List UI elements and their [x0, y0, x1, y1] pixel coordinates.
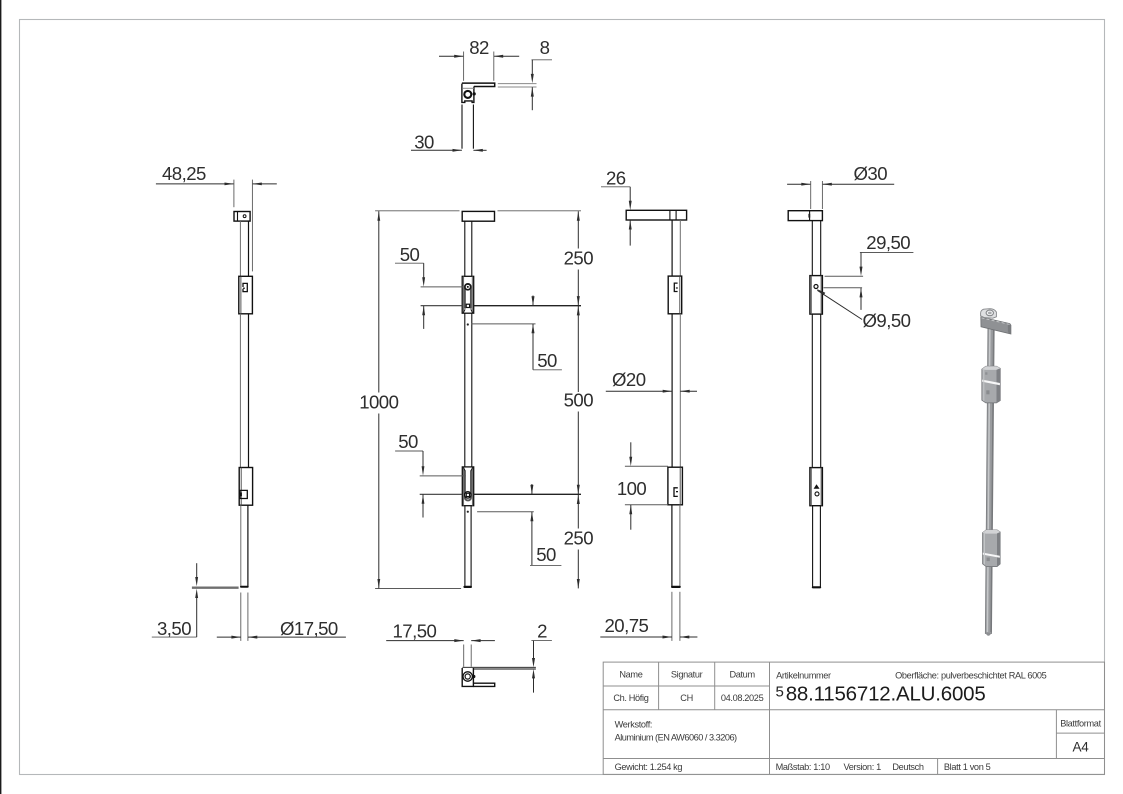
dimension 17,50 bottom — [386, 621, 495, 667]
upper bracket slot line long — [421, 305, 581, 307]
svg-text:Maßstab: 1:10: Maßstab: 1:10 — [776, 762, 830, 772]
right view rod upper — [672, 220, 680, 276]
svg-text:2: 2 — [537, 621, 547, 642]
right view upper bracket — [668, 276, 682, 314]
dimension 500 — [564, 306, 594, 494]
view4 rod lower — [813, 506, 821, 588]
sheet format cell — [1060, 718, 1101, 754]
top view handle bar — [462, 83, 495, 86]
view4 rod middle — [812, 314, 820, 468]
svg-text:Version: 1: Version: 1 — [844, 762, 882, 772]
svg-text:Name: Name — [619, 670, 642, 680]
dimension 26 — [601, 168, 632, 246]
svg-text:A4: A4 — [1072, 740, 1089, 755]
svg-text:Blatt 1 von 5: Blatt 1 von 5 — [944, 762, 991, 772]
front view rod lower — [465, 506, 472, 587]
svg-text:20,75: 20,75 — [605, 615, 649, 636]
dimension 250 top — [498, 211, 594, 306]
line 50 below upper bracket — [471, 323, 535, 325]
bottom view thin bar — [462, 667, 536, 669]
svg-text:50: 50 — [398, 431, 418, 452]
front view rod middle — [465, 313, 472, 467]
svg-text:500: 500 — [564, 390, 594, 411]
dimension 3,50 — [152, 563, 198, 639]
top view latch nub — [473, 92, 476, 95]
leader diameter 9,50 — [817, 289, 911, 331]
bottom view rings — [463, 672, 472, 681]
left view rod upper — [240, 221, 248, 276]
right view rod lower — [672, 505, 680, 587]
dimension 30 — [411, 131, 487, 152]
svg-text:50: 50 — [536, 544, 556, 565]
article number — [776, 682, 986, 705]
right view handle bar — [626, 210, 686, 220]
bottom view boss body — [462, 668, 473, 686]
title block grid — [603, 662, 1104, 774]
left view cap — [234, 212, 250, 222]
dimension diameter 17,50 — [217, 593, 346, 641]
bottom row cells — [615, 762, 991, 772]
front view upper bracket — [462, 276, 474, 313]
svg-text:82: 82 — [469, 37, 489, 58]
3d handle boss — [981, 309, 997, 319]
dimension 48,25 — [156, 163, 277, 272]
svg-text:Aluminium (EN AW6060 / 3.3206): Aluminium (EN AW6060 / 3.3206) — [615, 733, 737, 743]
left view rod middle — [240, 314, 248, 468]
bottom view nub — [472, 675, 475, 678]
dimension 82 — [439, 37, 519, 81]
view4 upper bracket — [810, 276, 823, 315]
dimension 50 upper-left — [395, 244, 425, 329]
dimension 100 — [617, 442, 668, 529]
center point upper — [467, 323, 469, 325]
lower bracket hole line long — [420, 493, 581, 495]
svg-text:88.1156712.ALU.6005: 88.1156712.ALU.6005 — [786, 682, 986, 705]
3d rod — [985, 326, 994, 634]
svg-text:29,50: 29,50 — [866, 232, 910, 253]
svg-text:Werkstoff:: Werkstoff: — [615, 719, 653, 729]
svg-text:Ø9,50: Ø9,50 — [863, 310, 911, 331]
title row values — [613, 693, 763, 703]
view4 rod upper — [812, 221, 820, 276]
view4 lower bracket — [810, 468, 823, 506]
front view lower bracket — [462, 467, 473, 506]
dimension 250 bottom — [564, 495, 594, 589]
svg-text:Signatur: Signatur — [671, 670, 703, 680]
3d handle bar — [981, 317, 1011, 334]
svg-text:Blattformat: Blattformat — [1060, 718, 1101, 728]
right view rod middle — [672, 314, 680, 467]
floor reference line — [192, 587, 239, 589]
svg-text:100: 100 — [617, 478, 647, 499]
lower bracket slot top line — [420, 475, 466, 477]
svg-text:48,25: 48,25 — [162, 163, 206, 184]
front view rod upper — [465, 221, 472, 276]
svg-text:8: 8 — [540, 37, 550, 58]
3d upper bracket — [982, 366, 1001, 403]
svg-text:Artikelnummer: Artikelnummer — [776, 671, 831, 681]
dimension 20,75 — [600, 592, 697, 641]
line 50 below lower bracket — [477, 511, 534, 513]
bottom view foot — [473, 683, 494, 686]
svg-text:Ø17,50: Ø17,50 — [280, 618, 338, 639]
dimension 1000 — [359, 211, 461, 589]
left view rod lower — [241, 505, 248, 587]
dimension 50 lower-right — [530, 484, 561, 565]
center point lower — [467, 511, 469, 513]
dimension 50 upper-right — [532, 296, 562, 372]
svg-text:04.08.2025: 04.08.2025 — [721, 693, 764, 703]
svg-text:Ø30: Ø30 — [854, 163, 888, 184]
svg-text:250: 250 — [564, 528, 594, 549]
material cell — [615, 719, 737, 742]
svg-text:50: 50 — [537, 350, 557, 371]
top view boss body — [462, 84, 474, 103]
svg-text:Gewicht: 1.254 kg: Gewicht: 1.254 kg — [615, 762, 683, 772]
dimension 8 — [498, 37, 552, 110]
dimension diameter 20 — [606, 369, 697, 392]
title row headers — [619, 670, 1046, 681]
dimension 2 — [531, 621, 552, 693]
svg-text:Datum: Datum — [729, 670, 755, 680]
svg-text:5: 5 — [776, 683, 784, 700]
dimension diameter 30 — [787, 163, 894, 209]
left view upper bracket — [239, 276, 253, 314]
svg-text:30: 30 — [414, 131, 434, 152]
view4 handle bar — [788, 211, 822, 221]
svg-text:Ø20: Ø20 — [612, 369, 646, 390]
front view cap — [462, 211, 494, 221]
top view rod edges — [462, 105, 473, 149]
dimension 29,50 — [824, 232, 914, 310]
3d lower bracket — [983, 530, 1001, 567]
svg-text:1000: 1000 — [359, 392, 398, 413]
svg-text:17,50: 17,50 — [393, 621, 437, 642]
svg-text:50: 50 — [400, 244, 420, 265]
left view lower bracket — [239, 468, 252, 506]
top view boss hole — [464, 91, 471, 98]
3d rod tip — [985, 633, 991, 636]
svg-text:Oberfläche: pulverbeschichtet: Oberfläche: pulverbeschichtet RAL 6005 — [895, 671, 1047, 681]
left window edge line — [0, 0, 1, 794]
svg-text:250: 250 — [564, 248, 594, 269]
svg-text:CH: CH — [680, 693, 693, 703]
upper bracket hole line — [421, 286, 463, 288]
svg-text:3,50: 3,50 — [157, 618, 191, 639]
right view lower bracket — [668, 467, 683, 505]
svg-text:26: 26 — [606, 168, 626, 189]
svg-text:Deutsch: Deutsch — [892, 762, 923, 772]
dimension 50 lower-left — [395, 431, 424, 517]
svg-text:Ch. Höfig: Ch. Höfig — [613, 693, 648, 703]
